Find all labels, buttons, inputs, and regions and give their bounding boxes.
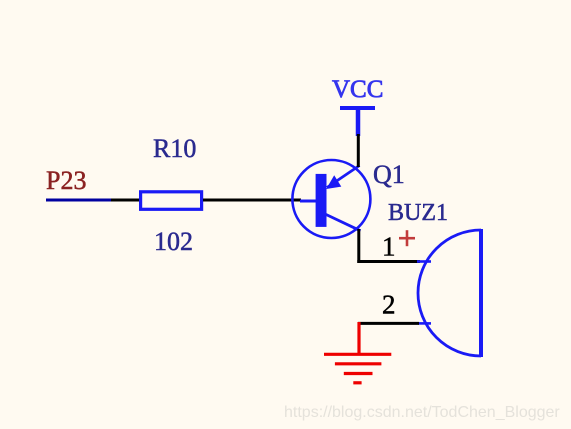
svg-text:https://blog.csdn.net/TodChen_: https://blog.csdn.net/TodChen_Blogger <box>284 404 560 421</box>
power VCC <box>332 76 383 136</box>
svg-text:1: 1 <box>382 232 396 262</box>
svg-text:VCC: VCC <box>332 76 383 103</box>
wire Q1 collector down <box>357 229 360 263</box>
ground <box>324 322 391 383</box>
wire net P23 segment <box>46 199 112 202</box>
wire resistor to transistor base <box>203 199 301 202</box>
svg-text:102: 102 <box>154 227 193 256</box>
transistor Q1 <box>292 160 370 238</box>
svg-text:BUZ1: BUZ1 <box>388 200 448 226</box>
polarity plus sign <box>399 230 415 246</box>
wire to buzzer pin 1 <box>357 260 420 263</box>
svg-text:R10: R10 <box>153 134 196 163</box>
svg-text:2: 2 <box>382 290 396 320</box>
resistor R10 <box>141 192 202 210</box>
svg-text:Q1: Q1 <box>373 160 405 189</box>
wire ground to buzzer pin 2 <box>358 322 419 325</box>
wire P23 to resistor <box>111 199 140 202</box>
wire VCC to Q1 emitter <box>357 134 360 167</box>
buzzer BUZ1 <box>417 229 481 357</box>
svg-text:P23: P23 <box>46 166 86 195</box>
